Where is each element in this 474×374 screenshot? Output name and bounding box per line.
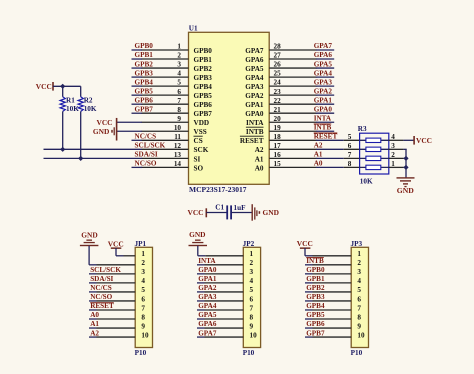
wire JP1 pin 3 — [89, 273, 135, 275]
svg-text:6: 6 — [348, 142, 352, 150]
wire JP1 pin 6 — [89, 300, 135, 302]
R3 value 10K — [360, 177, 373, 185]
junction R1 to SCL/SCK wire — [60, 147, 65, 152]
svg-text:10K: 10K — [66, 105, 79, 113]
JP1 pin number 7 — [141, 304, 145, 312]
svg-text:GPA3: GPA3 — [245, 83, 264, 91]
svg-text:GPA7: GPA7 — [245, 47, 264, 55]
wire JP3 pin 4 — [305, 282, 351, 284]
net label GPB6 at JP3 pin 9 — [306, 320, 325, 328]
svg-text:SCL/SCK: SCL/SCK — [135, 142, 166, 150]
svg-text:P10: P10 — [351, 349, 363, 357]
wire JP1 GND to pin 2 — [89, 246, 135, 265]
net label GPA0 at JP2 pin 3 — [198, 266, 217, 274]
net label GPB4 at JP3 pin 7 — [306, 302, 325, 310]
net label SCL/SCK at JP1 pin 3 — [90, 266, 121, 274]
connector JP2 P10 body — [243, 247, 260, 347]
U1 pin 1 (GPB0) left pin line, number and name — [142, 43, 213, 55]
wire from U1 pin 20 — [316, 121, 334, 123]
svg-text:GPA7: GPA7 — [198, 329, 217, 337]
svg-text:GND: GND — [397, 186, 415, 195]
svg-text:NC/SO: NC/SO — [90, 293, 112, 301]
svg-text:GPB5: GPB5 — [135, 87, 154, 95]
JP3 pin number 1 — [357, 250, 361, 258]
svg-text:SCL/SCK: SCL/SCK — [90, 266, 121, 274]
svg-text:GPB0: GPB0 — [135, 42, 154, 50]
svg-text:2: 2 — [250, 259, 254, 267]
svg-text:10K: 10K — [360, 177, 373, 185]
power port VCC top-left — [36, 82, 54, 91]
wire JP2 pin 6 — [197, 300, 243, 302]
svg-text:GPB0: GPB0 — [306, 266, 325, 274]
wire JP1 pin 10 — [89, 336, 135, 338]
svg-text:1uF: 1uF — [234, 204, 247, 212]
wire VCC rail to R1/R2 tops — [53, 85, 81, 87]
net label SDA/SI — [135, 151, 158, 159]
JP2 pin number 2 — [250, 259, 254, 267]
wire JP2 GND to pin 1 — [198, 246, 244, 256]
U1 pin 19 (INTB) right pin line, number and name — [246, 124, 317, 136]
svg-text:INTA: INTA — [314, 114, 332, 122]
IC U1 body — [189, 32, 270, 184]
svg-text:5: 5 — [348, 133, 352, 141]
net label GPB1 at JP3 pin 4 — [306, 275, 325, 283]
JP1 pin number 10 — [141, 331, 149, 339]
net label GPA2 — [314, 87, 333, 95]
R3 pin number 6 — [348, 142, 352, 150]
JP2 pin number 1 — [250, 250, 254, 258]
svg-text:A0: A0 — [90, 311, 99, 319]
wire U1 pin 17 to R3 pin 6 — [316, 148, 360, 150]
svg-text:3: 3 — [177, 61, 181, 69]
power port VCC right of R3 — [413, 136, 432, 145]
svg-text:GPA0: GPA0 — [245, 110, 264, 118]
svg-text:NC/SO: NC/SO — [135, 160, 157, 168]
net label GPA3 at JP2 pin 6 — [198, 293, 217, 301]
wire JP3 pin 10 — [305, 336, 351, 338]
wire from U1 pin 22 — [316, 103, 334, 105]
JP2 pin number 10 — [250, 331, 258, 339]
R3 internal resistor element 3 — [360, 156, 389, 160]
U1 pin 14 (SO) left pin line, number and name — [142, 160, 204, 172]
svg-text:GPA4: GPA4 — [198, 302, 217, 310]
svg-text:GPA2: GPA2 — [245, 92, 264, 100]
JP3 value P10 — [351, 349, 363, 357]
net label GPA0 — [314, 105, 333, 113]
svg-text:8: 8 — [177, 106, 181, 114]
R3 internal resistor element 4 — [360, 165, 389, 169]
R3 designator — [358, 125, 367, 133]
net label NC/SO at JP1 pin 6 — [90, 293, 112, 301]
U1 pin 28 (GPA7) right pin line, number and name — [245, 43, 316, 55]
wire to U1 pin 3 — [132, 67, 143, 69]
svg-text:25: 25 — [274, 70, 282, 78]
svg-text:GPB5: GPB5 — [194, 92, 213, 100]
svg-text:7: 7 — [357, 304, 361, 312]
power port VCC above JP1 — [108, 239, 124, 249]
svg-text:17: 17 — [274, 142, 282, 150]
net label GPA1 — [314, 96, 333, 104]
svg-text:24: 24 — [274, 79, 282, 87]
wire U1 pin 18 to R3 pin 5 — [316, 139, 360, 141]
svg-text:VDD: VDD — [194, 119, 210, 127]
svg-text:GPB3: GPB3 — [194, 74, 213, 82]
svg-text:GPA1: GPA1 — [314, 96, 333, 104]
svg-text:5: 5 — [250, 286, 254, 294]
svg-text:3: 3 — [357, 268, 361, 276]
JP2 pin number 3 — [250, 268, 254, 276]
IC U1 part number MCP23S17-23017 — [189, 185, 247, 194]
resistor R1 10K — [60, 86, 79, 149]
net label GPA7 at JP2 pin 10 — [198, 329, 217, 337]
JP3 pin number 4 — [357, 277, 361, 285]
svg-text:GPB6: GPB6 — [135, 96, 154, 104]
JP1 pin number 5 — [141, 286, 145, 294]
wire JP3 pin 5 — [305, 291, 351, 293]
connector JP1 P10 body — [135, 247, 152, 347]
wire JP3 pin 6 — [305, 300, 351, 302]
net label GPB3 — [135, 69, 154, 77]
U1 pin 23 (GPA2) right pin line, number and name — [245, 88, 316, 100]
U1 pin 26 (GPA5) right pin line, number and name — [245, 61, 316, 73]
svg-text:SDA/SI: SDA/SI — [90, 275, 113, 283]
svg-text:GPB7: GPB7 — [194, 110, 213, 118]
wire to U1 pin 6 — [132, 94, 143, 96]
svg-text:27: 27 — [274, 52, 282, 60]
net label INTB — [314, 123, 332, 131]
net label GPB5 — [135, 87, 154, 95]
wire to U1 pin 7 — [132, 103, 143, 105]
svg-text:6: 6 — [357, 295, 361, 303]
svg-text:VCC: VCC — [96, 118, 112, 127]
net label A2 — [314, 142, 323, 150]
svg-text:A0: A0 — [314, 160, 323, 168]
long wire net SCL/SCK — [44, 148, 143, 150]
svg-text:GPA5: GPA5 — [314, 60, 333, 68]
JP1 pin number 8 — [141, 313, 145, 321]
svg-text:10: 10 — [250, 331, 258, 339]
svg-text:GPB2: GPB2 — [306, 284, 325, 292]
wire from U1 pin 19 — [316, 130, 334, 132]
svg-text:GPA1: GPA1 — [245, 101, 264, 109]
net label GPA5 — [314, 60, 333, 68]
wire JP3 pin 9 — [305, 327, 351, 329]
svg-text:4: 4 — [250, 277, 254, 285]
power port VCC at C1 — [187, 208, 207, 217]
net label INTA — [314, 114, 332, 122]
svg-text:14: 14 — [174, 160, 182, 168]
svg-text:GND: GND — [81, 231, 97, 240]
svg-text:10K: 10K — [84, 105, 97, 113]
U1 pin 25 (GPA4) right pin line, number and name — [245, 70, 316, 82]
svg-text:A2: A2 — [314, 142, 323, 150]
JP2 pin number 9 — [250, 322, 254, 330]
JP3 pin number 8 — [357, 313, 361, 321]
svg-text:INTA: INTA — [198, 257, 216, 265]
svg-text:16: 16 — [274, 151, 282, 159]
IC U1 designator — [189, 24, 198, 32]
net label GPB5 at JP3 pin 8 — [306, 311, 325, 319]
svg-text:MCP23S17-23017: MCP23S17-23017 — [189, 185, 247, 194]
net label GPB3 at JP3 pin 6 — [306, 293, 325, 301]
svg-text:A2: A2 — [90, 329, 99, 337]
svg-text:19: 19 — [274, 124, 282, 132]
svg-text:6: 6 — [250, 295, 254, 303]
wire to U1 pin 8 — [132, 112, 143, 114]
JP2 pin number 6 — [250, 295, 254, 303]
net label GPA5 at JP2 pin 8 — [198, 311, 217, 319]
JP1 pin number 4 — [141, 277, 145, 285]
U1 pin 2 (GPB1) left pin line, number and name — [142, 52, 213, 64]
svg-text:GPA5: GPA5 — [245, 65, 264, 73]
JP1 pin number 1 — [141, 250, 145, 258]
svg-text:A0: A0 — [255, 164, 264, 172]
net label GPB4 — [135, 78, 154, 86]
U1 pin 20 (INTA) right pin line, number and name — [246, 115, 316, 127]
net label NC/SO — [135, 160, 157, 168]
net label A0 — [314, 160, 323, 168]
svg-text:10: 10 — [357, 331, 365, 339]
U1 pin 13 (SI) left pin line, number and name — [142, 151, 201, 163]
svg-text:7: 7 — [141, 304, 145, 312]
svg-text:JP1: JP1 — [135, 240, 147, 248]
net label GPA6 at JP2 pin 9 — [198, 320, 217, 328]
wire to U1 pin 2 — [132, 58, 143, 60]
JP2 pin number 5 — [250, 286, 254, 294]
svg-text:8: 8 — [348, 160, 352, 168]
R3 pin number 2 — [391, 151, 395, 159]
ground symbol above JP2 — [189, 230, 208, 246]
wire C1 to GND — [231, 212, 252, 214]
svg-text:GPA1: GPA1 — [198, 275, 217, 283]
U1 pin 22 (GPA1) right pin line, number and name — [245, 97, 316, 109]
svg-text:INTA: INTA — [246, 119, 264, 127]
wire JP3 pin 7 — [305, 309, 351, 311]
net label GPB7 — [135, 105, 154, 113]
wire JP2 pin 4 — [197, 282, 243, 284]
wire JP1 pin 7 — [89, 309, 135, 311]
svg-text:VCC: VCC — [36, 82, 52, 91]
svg-text:5: 5 — [141, 286, 145, 294]
svg-text:GND: GND — [93, 127, 109, 136]
svg-text:RESET: RESET — [90, 302, 114, 310]
svg-text:GPA7: GPA7 — [314, 42, 333, 50]
svg-text:GPA6: GPA6 — [245, 56, 264, 64]
svg-text:JP2: JP2 — [243, 240, 255, 248]
net label A1 — [314, 151, 323, 159]
svg-text:VCC: VCC — [297, 239, 313, 248]
svg-text:GPA4: GPA4 — [245, 74, 264, 82]
R3 pin number 4 — [391, 133, 395, 141]
wire VCC bar to U1 pin 9 VDD — [117, 121, 142, 123]
svg-text:GND: GND — [189, 230, 205, 239]
net label A0 at JP1 pin 8 — [90, 311, 99, 319]
svg-text:8: 8 — [141, 313, 145, 321]
long wire net SDA/SI — [44, 157, 143, 159]
wire U1 pin 16 to R3 pin 7 — [316, 157, 360, 159]
U1 pin 6 (GPB5) left pin line, number and name — [142, 88, 213, 100]
JP3 pin number 7 — [357, 304, 361, 312]
svg-text:9: 9 — [177, 115, 181, 123]
svg-text:R1: R1 — [66, 96, 75, 104]
svg-text:4: 4 — [177, 70, 181, 78]
svg-text:GPA3: GPA3 — [314, 78, 333, 86]
svg-text:GPB4: GPB4 — [306, 302, 325, 310]
JP3 pin number 5 — [357, 286, 361, 294]
wire from U1 pin 27 — [316, 58, 334, 60]
wire JP2 pin 2 — [197, 264, 243, 266]
svg-text:CS: CS — [194, 137, 203, 145]
wire JP1 VCC to pin 1 — [116, 248, 135, 256]
svg-text:GPA2: GPA2 — [198, 284, 217, 292]
net label SDA/SI at JP1 pin 4 — [90, 275, 113, 283]
U1 pin 27 (GPA6) right pin line, number and name — [245, 52, 316, 64]
net label GPB0 — [135, 42, 154, 50]
JP2 value P10 — [243, 349, 255, 357]
svg-text:A1: A1 — [314, 151, 323, 159]
svg-text:P10: P10 — [135, 349, 147, 357]
svg-text:12: 12 — [174, 142, 182, 150]
power port GND right of C1 — [252, 204, 279, 221]
svg-text:1: 1 — [250, 250, 254, 258]
U1 pin 3 (GPB2) left pin line, number and name — [142, 61, 213, 73]
svg-text:5: 5 — [357, 286, 361, 294]
wire JP3 pin 3 — [305, 273, 351, 275]
net label GPA6 — [314, 51, 333, 59]
wire R3 pin 1 to ground rail — [389, 166, 407, 168]
svg-text:6: 6 — [177, 88, 181, 96]
wire JP2 pin 9 — [197, 327, 243, 329]
net label GPA2 at JP2 pin 5 — [198, 284, 217, 292]
svg-text:7: 7 — [250, 304, 254, 312]
svg-text:10: 10 — [141, 331, 149, 339]
U1 pin 16 (A1) right pin line, number and name — [255, 151, 317, 163]
R3 pin number 1 — [391, 160, 395, 168]
svg-text:8: 8 — [357, 313, 361, 321]
U1 pin 9 (VDD) left pin line, number and name — [142, 115, 210, 127]
resistor network R3 10K body — [360, 133, 389, 174]
wire JP1 pin 5 — [89, 291, 135, 293]
svg-text:VCC: VCC — [187, 208, 203, 217]
wire JP3 pin 2 — [305, 264, 351, 266]
net label GPA3 — [314, 78, 333, 86]
svg-text:GPB1: GPB1 — [135, 51, 154, 59]
net label GPA4 — [314, 69, 333, 77]
svg-text:GPA6: GPA6 — [314, 51, 333, 59]
svg-text:23: 23 — [274, 88, 282, 96]
svg-text:GPA2: GPA2 — [314, 87, 333, 95]
svg-text:R2: R2 — [84, 96, 93, 104]
svg-text:GPA3: GPA3 — [198, 293, 217, 301]
JP3 pin number 3 — [357, 268, 361, 276]
svg-text:SCK: SCK — [194, 146, 209, 154]
wire JP2 pin 3 — [197, 273, 243, 275]
capacitor C1 1uF — [215, 203, 246, 219]
R3 pin number 3 — [391, 142, 395, 150]
svg-text:R3: R3 — [358, 125, 367, 133]
U1 pin 18 (RESET) right pin line, number and name — [240, 133, 317, 145]
wire JP2 pin 5 — [197, 291, 243, 293]
U1 pin 12 (SCK) left pin line, number and name — [142, 142, 209, 154]
svg-text:7: 7 — [348, 151, 352, 159]
wire to U1 pin 1 — [132, 49, 143, 51]
vertical ground rail wire right of R3 — [405, 149, 407, 177]
svg-text:GPB0: GPB0 — [194, 47, 213, 55]
wire JP1 pin 8 — [89, 318, 135, 320]
U1 pin 7 (GPB6) left pin line, number and name — [142, 97, 213, 109]
R3 pin number 8 — [348, 160, 352, 168]
wire JP2 pin 10 — [197, 336, 243, 338]
svg-text:SO: SO — [194, 164, 204, 172]
wire VCC to C1 — [206, 212, 227, 214]
U1 pin 4 (GPB3) left pin line, number and name — [142, 70, 213, 82]
ground symbol above JP1 — [80, 231, 99, 247]
JP2 pin number 4 — [250, 277, 254, 285]
svg-text:NC/CS: NC/CS — [135, 133, 157, 141]
wire to U1 pin 5 — [132, 85, 143, 87]
svg-text:10: 10 — [174, 124, 182, 132]
U1 pin 24 (GPA3) right pin line, number and name — [245, 79, 316, 91]
junction rail/pin1 — [403, 165, 408, 170]
svg-text:INTB: INTB — [306, 257, 324, 265]
svg-text:13: 13 — [174, 151, 182, 159]
power port GND at U1 VSS — [93, 127, 115, 136]
wire from U1 pin 24 — [316, 85, 334, 87]
JP2 pin number 8 — [250, 313, 254, 321]
svg-text:VCC: VCC — [416, 136, 432, 145]
wire JP3 pin 8 — [305, 318, 351, 320]
svg-text:VSS: VSS — [194, 128, 207, 136]
svg-text:INTB: INTB — [314, 123, 332, 131]
net label GPA1 at JP2 pin 4 — [198, 275, 217, 283]
net label GPB7 at JP3 pin 10 — [306, 329, 325, 337]
svg-text:C1: C1 — [215, 203, 224, 211]
svg-text:GPB4: GPB4 — [135, 78, 154, 86]
svg-text:5: 5 — [177, 79, 181, 87]
net label INTA at JP2 pin 2 — [198, 257, 216, 265]
svg-text:A2: A2 — [255, 146, 264, 154]
R3 internal resistor element 2 — [360, 147, 389, 151]
JP3 pin number 2 — [357, 259, 361, 267]
svg-text:9: 9 — [357, 322, 361, 330]
wire U1 pin 15 to R3 pin 8 — [316, 166, 360, 168]
U1 pin 10 (VSS) left pin line, number and name — [142, 124, 207, 136]
wire from U1 pin 25 — [316, 76, 334, 78]
wire to U1 pin 14 — [132, 166, 143, 168]
JP2 designator — [243, 240, 255, 248]
svg-text:2: 2 — [141, 259, 145, 267]
svg-text:JP3: JP3 — [351, 240, 363, 248]
svg-text:U1: U1 — [189, 24, 198, 32]
JP3 designator — [351, 240, 363, 248]
svg-text:GPB1: GPB1 — [194, 56, 213, 64]
net label A1 at JP1 pin 9 — [90, 320, 99, 328]
svg-text:RESET: RESET — [314, 133, 338, 141]
U1 pin 21 (GPA0) right pin line, number and name — [245, 106, 316, 118]
svg-text:26: 26 — [274, 61, 282, 69]
svg-text:3: 3 — [250, 268, 254, 276]
svg-text:GPB2: GPB2 — [194, 65, 213, 73]
wire to U1 pin 11 — [132, 139, 143, 141]
resistor R2 10K — [78, 86, 97, 158]
junction R2 to SDA/SI wire — [78, 156, 83, 161]
svg-text:4: 4 — [141, 277, 145, 285]
R3 pin number 7 — [348, 151, 352, 159]
net label SCL/SCK — [135, 142, 166, 150]
wire R3 pin 3 to ground rail — [389, 148, 407, 150]
svg-text:VCC: VCC — [108, 239, 124, 248]
svg-text:GPA5: GPA5 — [198, 311, 217, 319]
